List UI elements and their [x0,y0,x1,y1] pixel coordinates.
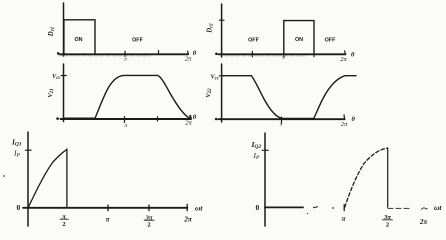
Iq1 vertical drop [66,149,68,208]
svg-text:OFF: OFF [248,37,259,43]
V21 waveform [64,75,190,118]
svg-text:2: 2 [62,221,65,228]
svg-text:ON: ON [74,37,82,43]
plot5 tick pi [107,205,109,211]
plot5 stray speck [3,175,5,177]
plot1 axis end tick [187,51,190,54]
svg-text:IQ1: IQ1 [11,138,22,148]
svg-text:0: 0 [17,203,21,212]
svg-text:Dr1: Dr1 [48,27,56,37]
svg-text:ωt: ωt [195,204,203,213]
plot2 x-axis [219,53,346,55]
plot6 speck [307,213,308,214]
svg-text:Vcc: Vcc [211,73,220,81]
svg-text:θ: θ [193,114,197,121]
svg-text:2π: 2π [185,56,192,63]
plot4 x-axis [219,118,345,120]
plot6 Ip level tick [262,149,268,151]
plot1 tick 3pi/2 [158,51,160,55]
svg-text:2π: 2π [340,56,347,63]
plot6 y-axis [264,133,266,226]
plot2 level tick [219,19,224,21]
plot2 tick 3pi/2 [313,54,315,57]
svg-text:IP: IP [13,149,21,159]
svg-text:Vcc: Vcc [52,73,61,81]
plot6 x-axis dot mark [332,207,334,209]
svg-text:0: 0 [256,203,260,212]
svg-text:π: π [282,56,285,61]
svg-text:ωt: ωt [434,203,442,212]
svg-text:θ: θ [351,51,355,58]
Iq2 vertical drop [387,148,389,207]
svg-text:Dr2: Dr2 [207,23,215,34]
plot3 y-axis [63,64,65,122]
svg-text:2: 2 [386,221,389,228]
svg-text:2π: 2π [341,121,348,128]
svg-text:V21: V21 [47,88,55,97]
plot4 origin 0 [215,118,218,121]
plot4 Vcc level tick [219,75,224,77]
svg-text:2π: 2π [183,216,192,224]
Iq1 rising current waveform [28,150,67,208]
plot3 Vcc level tick [61,75,66,77]
plot2 axis end tick [344,51,347,54]
svg-text:OFF: OFF [132,38,143,44]
plot3 tick pi [124,117,126,123]
svg-text:π: π [124,57,127,62]
plot6 x-axis solid part [265,206,303,208]
svg-text:OFF: OFF [325,37,336,43]
svg-text:π: π [280,122,283,128]
svg-text:ON: ON [295,37,303,43]
plot5 Ip level tick [25,149,31,151]
plot5 axis end bar [186,204,188,210]
plot4 axis end tick [343,115,346,119]
plot1 axis scan fuzz [58,55,150,57]
svg-text:θ: θ [352,116,356,123]
Dr1 pulse ON waveform [64,20,95,54]
plot5 x-axis [23,207,187,209]
plot2 tick pi [283,54,285,57]
svg-text:π: π [342,215,346,223]
plot5 tick 3pi/2 [148,205,150,211]
plot3 tick 3pi/2 [157,117,159,121]
Dr2 pulse ON waveform [284,21,314,54]
plot2 axis scan fuzz [224,55,305,57]
plot6 tail squiggle [422,208,428,209]
plot1 tick pi [124,51,126,56]
svg-text:IQ2: IQ2 [251,140,262,150]
plot6 tick pi [343,205,345,211]
plot1 x-axis [60,53,188,55]
svg-text:2π: 2π [419,218,428,226]
svg-text:V22: V22 [205,88,213,98]
svg-text:IP: IP [253,151,261,161]
plot1 y-axis [63,3,65,56]
plot1 origin 0 [57,52,60,55]
plot5 y-axis [27,132,29,226]
Iq2 rising current waveform dashed [345,148,387,207]
plot2 origin 0 [215,53,218,56]
svg-text:π: π [124,123,127,129]
plot3 origin 0 [56,117,59,120]
plot3 x-axis [61,116,192,119]
plot2 y-axis [221,4,223,57]
plot6 x-axis dashed tail [388,207,411,209]
plot2 tick pi/2 [251,51,253,56]
svg-text:2: 2 [147,221,150,228]
plot4 y-axis [221,64,223,122]
plot4 tick pi [281,117,283,123]
svg-text:2π: 2π [185,120,192,127]
plot6 x-axis dash mark [314,206,318,209]
svg-text:θ: θ [193,50,197,57]
svg-text:π: π [106,216,110,224]
V22 waveform [222,76,356,119]
